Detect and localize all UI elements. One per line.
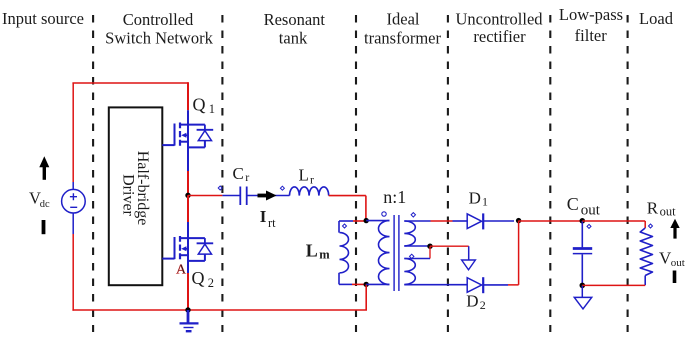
transformer core xyxy=(394,215,399,291)
wire: secondary bottom top-end lead (blue) xyxy=(404,258,430,260)
polarity mark (Cout) xyxy=(587,224,591,228)
polarity mark (Lm) xyxy=(343,224,347,228)
svg-text:Driver: Driver xyxy=(120,174,137,216)
node: Cout top xyxy=(580,218,586,224)
wire: primary winding bottom to node xyxy=(366,283,389,285)
dashed separator 3 xyxy=(355,15,357,332)
Vdc polarity arrow (up) xyxy=(39,156,49,180)
svg-text:Q: Q xyxy=(192,268,205,288)
wire: D1 cathode to output node (blue) xyxy=(484,220,514,222)
dashed separator 4 xyxy=(447,15,449,332)
svg-text:Input source: Input source xyxy=(2,9,84,28)
wire: secondary top to D1 (red middle) xyxy=(431,220,453,222)
half-bridge driver box xyxy=(109,107,163,285)
svg-text:out: out xyxy=(671,257,685,269)
dashed separator 5 xyxy=(549,15,551,332)
svg-text:2: 2 xyxy=(480,298,486,312)
wire: Cout bottom lead (blue) xyxy=(581,254,583,285)
svg-text:A: A xyxy=(176,263,187,278)
wire: Cout ground stub (blue) xyxy=(581,285,583,297)
diode D1 xyxy=(467,213,483,229)
dashed separator 1 xyxy=(92,15,94,332)
svg-text:C: C xyxy=(233,164,244,183)
svg-text:I: I xyxy=(260,207,267,226)
svg-text:Q: Q xyxy=(193,95,206,115)
label Lr xyxy=(299,166,315,187)
svg-text:out: out xyxy=(581,202,601,218)
wire: left vertical top (Vdc+ to top rail) xyxy=(72,83,74,182)
svg-text:n:1: n:1 xyxy=(383,187,406,207)
svg-text:out: out xyxy=(660,204,677,218)
polarity mark (primary dot) xyxy=(382,212,386,216)
svg-text:r: r xyxy=(310,172,314,186)
wire: D1 anode lead (blue) xyxy=(453,220,468,222)
svg-text:R: R xyxy=(647,198,659,217)
voltage source Vdc xyxy=(62,189,86,213)
svg-text:filter: filter xyxy=(575,26,608,45)
transformer primary winding xyxy=(379,221,390,285)
wire: to Cr left plate (blue) xyxy=(222,195,240,197)
polarity mark (Lr) xyxy=(280,186,284,190)
section label: Low-pass filter xyxy=(559,5,623,45)
wire: center tap vertical (red) xyxy=(429,246,431,258)
diode D2 xyxy=(467,277,483,293)
svg-text:Uncontrolled: Uncontrolled xyxy=(455,10,543,29)
wire: Q2 drain-source main line (blue) xyxy=(187,222,189,273)
wire: output node to Cout (red) xyxy=(519,220,583,222)
svg-text:L: L xyxy=(306,241,318,261)
wire: secondary top to D1 (blue) xyxy=(404,220,430,222)
wire: Q1 drain-source main line (blue) xyxy=(187,110,189,171)
wire: D2 to output node corner (red) xyxy=(508,221,519,285)
wire: Q2 source to ground node (red) xyxy=(187,273,189,310)
svg-text:Switch Network: Switch Network xyxy=(105,29,213,48)
svg-text:r: r xyxy=(245,170,249,184)
svg-text:Controlled: Controlled xyxy=(123,10,194,29)
wire: Vdc source lead top xyxy=(72,182,74,189)
svg-text:D: D xyxy=(469,189,481,208)
wire: Cout to Rout top (red) xyxy=(582,221,645,228)
ground (output, open triangle) xyxy=(574,297,591,309)
section label: Resonant tank xyxy=(264,10,326,48)
svg-text:m: m xyxy=(319,248,330,262)
svg-text:1: 1 xyxy=(209,102,215,116)
svg-text:tank: tank xyxy=(279,29,308,48)
section label: Ideal transformer xyxy=(364,10,441,48)
wire: Lr to transformer (red) xyxy=(329,195,366,197)
wire: Q1 source to node A (red) xyxy=(187,171,189,195)
polarity mark (Cr) xyxy=(218,186,222,190)
wire: top rail xyxy=(72,82,188,84)
polarity mark (secondary bottom dot) xyxy=(410,254,414,258)
wire: Lm bottom to node (red) xyxy=(352,283,366,285)
capacitor Cout xyxy=(573,249,592,254)
dashed separator 6 xyxy=(627,15,629,332)
svg-text:Ideal: Ideal xyxy=(387,10,420,29)
section label: Uncontrolled rectifier xyxy=(455,10,543,47)
label Rout xyxy=(647,198,676,218)
wire: Cr to Lr (blue, carries Irt arrow) xyxy=(247,195,290,197)
wire: Lm bottom lead (blue) xyxy=(339,283,352,285)
svg-text:2: 2 xyxy=(208,276,214,290)
inductor Lm xyxy=(339,221,349,284)
wire: D2 cathode (blue) xyxy=(484,284,508,286)
svg-text:rt: rt xyxy=(268,216,276,230)
svg-text:transformer: transformer xyxy=(364,29,441,48)
label D2 xyxy=(466,291,486,312)
svg-text:L: L xyxy=(299,166,309,185)
label Q2 xyxy=(192,268,215,290)
svg-text:Load: Load xyxy=(639,9,674,28)
node: primary top xyxy=(364,218,369,223)
wire: center tap to ground (red) xyxy=(430,245,469,247)
ground (center tap, open triangle) xyxy=(462,260,476,270)
transistor Q1 (MOSFET with body diode) xyxy=(162,123,213,148)
svg-text:rectifier: rectifier xyxy=(473,27,526,46)
node: rectifier output xyxy=(516,218,521,223)
ground (power ground) xyxy=(180,310,199,331)
label D1 xyxy=(469,189,488,209)
svg-text:Low-pass: Low-pass xyxy=(559,5,623,24)
capacitor Cr xyxy=(240,187,246,206)
node: center tap xyxy=(427,244,432,249)
wire: down to primary top node (red) xyxy=(365,196,367,221)
svg-text:C: C xyxy=(567,194,579,214)
node: primary bottom xyxy=(364,282,369,287)
transformer secondary bottom winding xyxy=(404,259,415,285)
wire: secondary bottom to D2 (blue) xyxy=(404,284,467,286)
svg-text:1: 1 xyxy=(482,195,488,209)
polarity mark (secondary top dot) xyxy=(411,213,415,217)
Vdc polarity bar xyxy=(42,220,46,234)
wire: primary bottom to bottom rail (red) xyxy=(365,284,367,310)
wire: Rout bottom lead (blue) xyxy=(644,276,646,286)
transformer secondary top winding xyxy=(404,221,415,246)
polarity mark (Rout) xyxy=(649,224,653,228)
wire: center tap ground stub (blue) xyxy=(468,246,470,259)
current arrow Irt xyxy=(258,191,277,201)
wire: Cout top lead (blue) xyxy=(581,221,583,247)
junction: Q2 source / bottom rail xyxy=(185,307,190,312)
wire: node to Q2 drain (red) xyxy=(187,195,189,222)
label Q1 xyxy=(193,95,216,116)
dashed separator 2 xyxy=(221,15,223,332)
wire: output bottom rail (red) xyxy=(582,284,645,286)
wire: left vertical bottom xyxy=(72,234,74,311)
node: Cout bottom xyxy=(580,283,586,289)
label Irt xyxy=(260,207,276,230)
inductor Lr xyxy=(290,187,329,196)
label Vout xyxy=(659,249,685,269)
node A (midpoint junction) xyxy=(185,193,190,198)
label Cr xyxy=(233,164,250,184)
wire: Q1 drain from rail (red) xyxy=(187,82,189,110)
wire: node to primary winding top xyxy=(366,220,389,222)
wire: node A to Cr (red) xyxy=(188,195,222,197)
wire: Lm top lead (blue) xyxy=(339,220,353,222)
Vout polarity bar xyxy=(673,271,677,284)
transistor Q2 (MOSFET with body diode) xyxy=(162,236,213,261)
svg-text:D: D xyxy=(466,291,478,310)
section label: Controlled Switch Network xyxy=(105,10,213,48)
wire: bottom rail xyxy=(72,309,367,311)
Vout polarity arrow (up) xyxy=(670,219,679,239)
wire: Lm top to node (red) xyxy=(353,220,366,222)
resistor Rout xyxy=(640,228,652,276)
wire: center tap (blue from winding) xyxy=(404,245,430,247)
svg-text:Resonant: Resonant xyxy=(264,10,326,29)
wire: Vdc source lead bottom xyxy=(72,213,74,234)
label Lm xyxy=(306,241,330,262)
label Cout xyxy=(567,194,601,219)
label Vdc xyxy=(29,188,50,210)
svg-text:dc: dc xyxy=(40,199,50,210)
